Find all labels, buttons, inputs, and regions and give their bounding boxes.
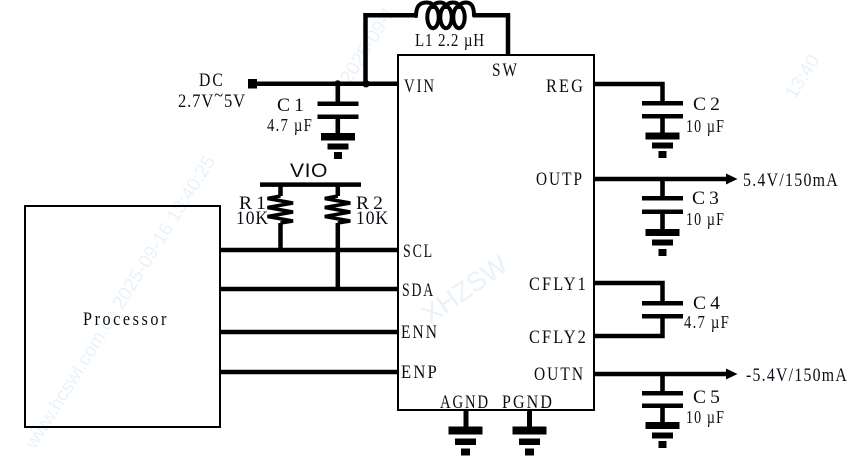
svg-text:10 µF: 10 µF — [686, 116, 725, 136]
svg-text:4.7 µF: 4.7 µF — [267, 115, 313, 135]
svg-text:4.7 µF: 4.7 µF — [684, 312, 730, 332]
wire coil to SW corner — [473, 13, 510, 18]
wire SW riser — [506, 13, 511, 56]
ground for C1 — [321, 133, 355, 159]
resistor R1 — [268, 184, 294, 250]
svg-text:10 µF: 10 µF — [686, 407, 725, 427]
watermark band lower-left — [21, 152, 220, 453]
svg-text:C2: C2 — [693, 94, 724, 115]
ground AGND — [449, 427, 483, 456]
capacitor C1 — [318, 102, 359, 135]
IC U1 box — [398, 55, 594, 410]
svg-text:ENN: ENN — [401, 322, 439, 343]
ground for C3 — [646, 229, 680, 256]
svg-text:10 µF: 10 µF — [686, 209, 725, 229]
svg-text:-5.4V/150mA: -5.4V/150mA — [746, 365, 848, 386]
svg-text:C1: C1 — [277, 95, 308, 116]
wire ENN — [221, 330, 398, 335]
svg-text:CFLY1: CFLY1 — [529, 274, 588, 295]
svg-text:SCL: SCL — [403, 241, 434, 262]
ground for C2 — [646, 133, 680, 159]
svg-text:C3: C3 — [692, 188, 723, 209]
svg-text:CFLY2: CFLY2 — [529, 327, 588, 348]
wire DC input to VIN — [252, 81, 398, 86]
wire OUTN output — [594, 372, 730, 377]
svg-text:SW: SW — [492, 60, 519, 81]
svg-text:L1 2.2 µH: L1 2.2 µH — [415, 30, 485, 50]
watermark band top-right — [781, 51, 824, 102]
svg-text:13:40: 13:40 — [781, 51, 824, 102]
watermark band center — [416, 249, 513, 330]
wire riser to inductor — [363, 13, 368, 84]
wire REG to C2 — [594, 84, 663, 102]
inductor L1 — [416, 3, 474, 29]
svg-text:C4: C4 — [693, 293, 724, 314]
ground for C5 — [646, 422, 680, 448]
node junction C1 tap — [334, 80, 341, 87]
svg-text:VIO: VIO — [290, 161, 328, 182]
svg-text:10K: 10K — [356, 208, 389, 229]
wire SDA — [221, 287, 398, 292]
svg-text:SDA: SDA — [402, 280, 435, 301]
svg-text:OUTN: OUTN — [534, 364, 585, 385]
svg-text:C5: C5 — [693, 387, 724, 408]
ground PGND — [513, 427, 547, 456]
svg-text:AGND: AGND — [440, 392, 490, 413]
capacitor C4 — [642, 301, 683, 319]
svg-text:10K: 10K — [236, 208, 269, 229]
wire SCL — [221, 248, 398, 253]
wire AGND stub — [464, 410, 469, 428]
svg-text:PGND: PGND — [502, 392, 554, 413]
wire CFLY2 to C4 — [594, 317, 663, 336]
node DC input terminal — [248, 79, 257, 89]
wire VIO rail — [260, 182, 361, 187]
node arrow -5.4V — [726, 369, 738, 380]
svg-text:www.hcswl.com.cn 2025-09-16 13: www.hcswl.com.cn 2025-09-16 13:40:25 — [21, 152, 220, 453]
node arrow +5.4V — [726, 174, 738, 185]
svg-text:OUTP: OUTP — [536, 169, 584, 190]
svg-text:5.4V/150mA: 5.4V/150mA — [743, 170, 839, 191]
svg-text:ENP: ENP — [401, 362, 439, 383]
capacitor C3 — [642, 179, 683, 230]
svg-text:REG: REG — [546, 76, 585, 97]
wire CFLY1 to C4 — [594, 283, 663, 302]
wire ENP — [221, 370, 398, 375]
svg-text:Processor: Processor — [83, 309, 169, 330]
wire top left to coil — [364, 13, 418, 18]
processor box — [25, 206, 220, 427]
capacitor C5 — [642, 374, 683, 423]
node junction inductor tap — [362, 80, 369, 87]
resistor R2 — [325, 184, 351, 289]
wire PGND stub — [527, 410, 532, 428]
capacitor C2 — [642, 101, 683, 133]
wire C1 stub — [335, 84, 340, 102]
wire OUTP output — [594, 177, 730, 182]
watermark band upper fragment — [336, 3, 400, 88]
svg-text:VIN: VIN — [404, 76, 436, 97]
